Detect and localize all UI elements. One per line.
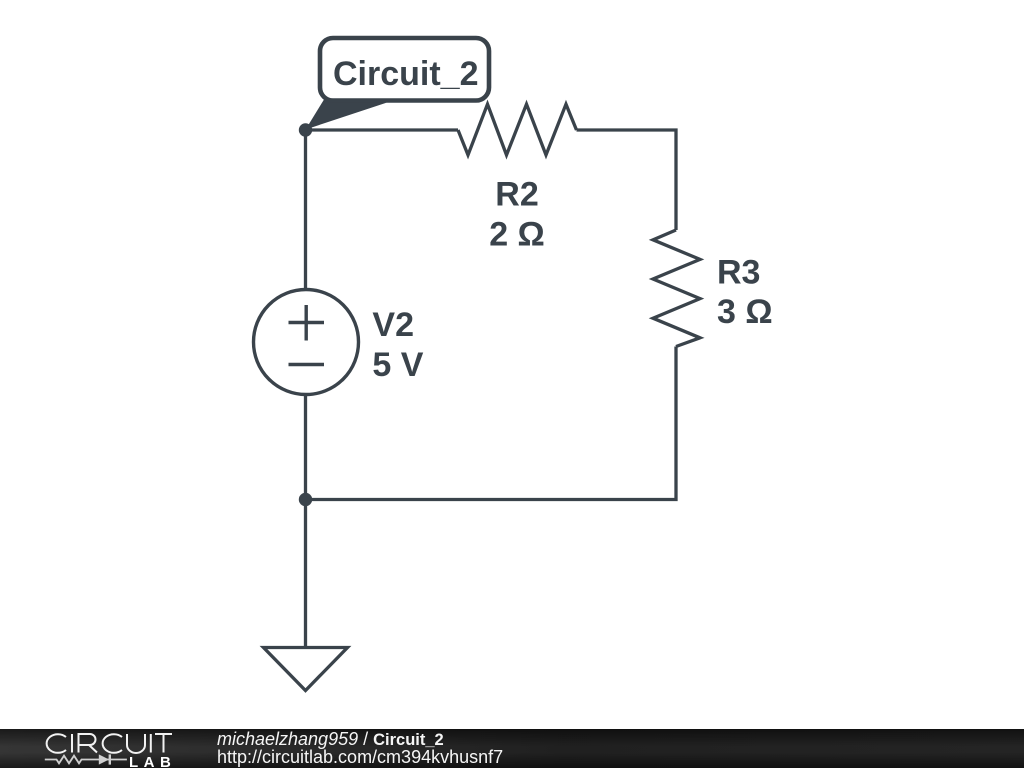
logo resistor squiggle <box>45 755 84 763</box>
V2 plus sign <box>289 321 325 324</box>
logo diode wire <box>84 758 127 760</box>
logo I2 <box>150 734 152 753</box>
voltage source V2 <box>254 290 359 395</box>
svg-text:R2: R2 <box>495 175 538 213</box>
node A (top junction) <box>299 123 312 136</box>
watermark bar <box>0 729 1024 768</box>
CircuitLab logo <box>0 729 200 768</box>
logo C2 <box>103 734 122 753</box>
logo C1 <box>47 734 66 753</box>
logo T <box>155 734 172 753</box>
node B (bottom junction) <box>299 493 312 506</box>
wire right: R3 down to bottom-right corner <box>306 347 677 500</box>
svg-text:2 Ω: 2 Ω <box>489 215 545 253</box>
logo U <box>127 734 145 753</box>
resistor R2 <box>458 104 577 155</box>
logo I1 <box>71 734 73 753</box>
wire left: node down to V2 top <box>304 130 307 290</box>
wire left: V2 bottom to ground <box>304 394 307 647</box>
label balloon Circuit_2 <box>320 38 489 101</box>
svg-text:3 Ω: 3 Ω <box>717 293 773 331</box>
logo diode <box>99 754 109 764</box>
wire top: R2 to top-right corner <box>577 130 677 230</box>
logo R <box>79 734 98 753</box>
V2 minus sign <box>289 363 325 366</box>
label balloon tail <box>306 100 387 130</box>
svg-text:R3: R3 <box>717 253 760 291</box>
ground <box>264 648 348 691</box>
resistor R3 <box>653 230 700 347</box>
wire top: node to R2 <box>306 128 459 131</box>
watermark text <box>217 731 503 766</box>
svg-text:5 V: 5 V <box>372 346 423 384</box>
svg-text:V2: V2 <box>372 306 414 344</box>
svg-text:Circuit_2: Circuit_2 <box>333 55 479 93</box>
